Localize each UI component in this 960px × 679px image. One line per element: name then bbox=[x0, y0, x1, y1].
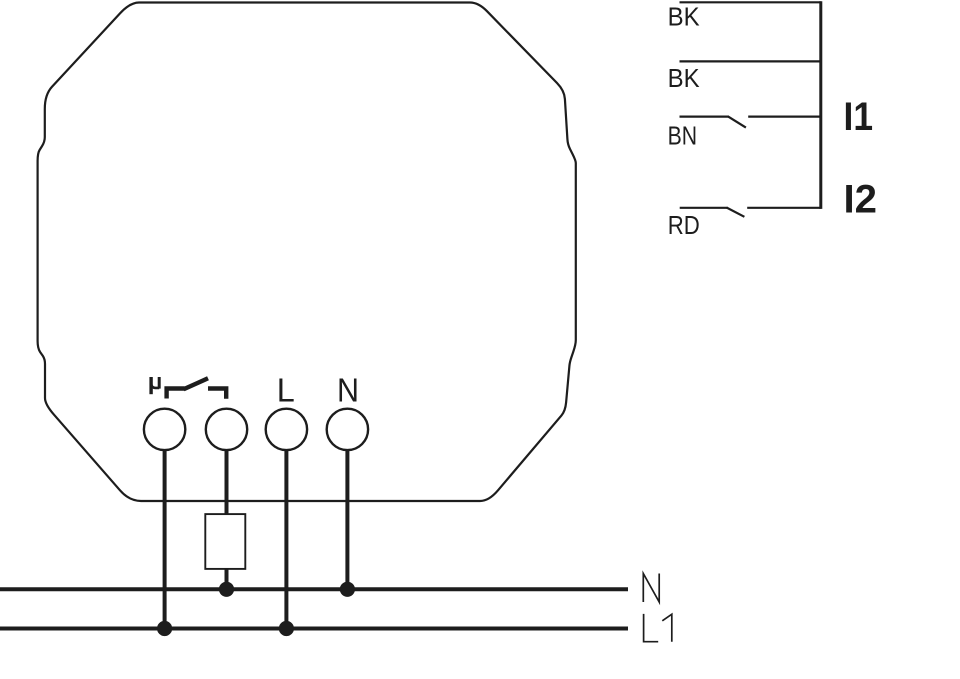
svg-text:BK: BK bbox=[668, 2, 701, 32]
wire from terminal 2 to load bbox=[225, 449, 229, 516]
svg-text:I1: I1 bbox=[844, 95, 874, 139]
svg-text:N: N bbox=[337, 372, 359, 409]
relay contact: moving lever bbox=[184, 378, 208, 389]
svg-text:L: L bbox=[277, 372, 295, 409]
bus label N (thin DIN style, drawn) bbox=[643, 574, 659, 603]
terminal 1 (relay contact output) bbox=[144, 409, 185, 450]
pushbutton contact on BN (input I1) bbox=[728, 116, 746, 127]
sensor wire BK (antenna) bbox=[680, 1, 821, 3]
sensor wire BK 2 bbox=[680, 60, 821, 62]
junction dot load/N bbox=[219, 582, 234, 597]
input wire RD, left segment bbox=[680, 207, 728, 209]
relay contact symbol: micro-gap label µ (drawn) bbox=[151, 377, 159, 394]
relay contact: left fixed terminal bbox=[167, 389, 185, 399]
pushbutton contact on RD (input I2) bbox=[727, 208, 745, 217]
wire from load to N bus bbox=[225, 567, 229, 589]
junction dot wireN/N bbox=[340, 582, 355, 597]
input wire BN, right segment bbox=[748, 115, 821, 117]
input wire RD, right segment bbox=[747, 207, 821, 209]
svg-text:RD: RD bbox=[668, 210, 700, 240]
junction dot wire1/L1 bbox=[157, 621, 172, 636]
bus label L1 (thin DIN style, drawn) bbox=[644, 614, 672, 642]
terminal N bbox=[327, 409, 368, 450]
svg-text:BK: BK bbox=[668, 63, 701, 93]
svg-text:BN: BN bbox=[668, 120, 698, 150]
terminal L bbox=[266, 409, 307, 450]
actuator device outline (flush-mount octagon body) bbox=[38, 3, 576, 502]
input wire BN, left segment bbox=[680, 115, 729, 117]
wire from terminal N to N bus bbox=[345, 449, 349, 589]
load (lamp/resistor box) bbox=[205, 514, 245, 569]
L1 supply bus bbox=[0, 627, 628, 631]
wire from terminal L to L1 bus bbox=[284, 449, 288, 629]
terminal 2 (relay contact output) bbox=[206, 409, 247, 450]
svg-text:I2: I2 bbox=[844, 178, 878, 222]
wire from terminal 1 to L1 bus bbox=[163, 449, 167, 629]
N supply bus bbox=[0, 587, 628, 591]
relay contact: right fixed terminal bbox=[208, 389, 226, 399]
junction dot wireL/L1 bbox=[279, 621, 294, 636]
input collector bus (vertical) bbox=[819, 1, 822, 209]
